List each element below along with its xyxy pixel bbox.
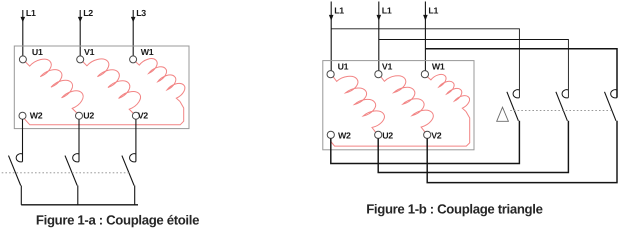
terminal V1 (right fig) (375, 71, 382, 78)
arrow L2 (left fig) (78, 17, 83, 22)
wire blade bottom to star bar pole 1 (left fig) (20, 186, 22, 205)
terminal V2 (right fig) (424, 131, 431, 138)
terminal U1 (right fig) (327, 71, 334, 78)
svg-text:Figure 1-b : Couplage triangle: Figure 1-b : Couplage triangle (366, 201, 542, 216)
switch blade pole 2 (left fig) (65, 156, 77, 186)
svg-text:V1: V1 (84, 47, 95, 57)
terminal U2 (left fig) (76, 112, 83, 119)
svg-text:L1: L1 (26, 8, 36, 18)
wire L1 feeder 1 (right fig) (330, 2, 332, 71)
terminal box (left fig, motor terminal board) (14, 46, 189, 129)
svg-text:U2: U2 (83, 110, 94, 120)
wire blade bottom to star bar pole 3 (left fig) (134, 186, 136, 205)
winding coil U1-U2 (left fig) (25, 59, 83, 112)
svg-text:U1: U1 (32, 47, 43, 57)
svg-text:V2: V2 (138, 110, 149, 120)
star point shorting bar (left fig) (21, 204, 138, 206)
wire L1 feeder (left fig) (22, 10, 24, 56)
svg-text:Figure 1-a : Couplage étoile: Figure 1-a : Couplage étoile (36, 212, 199, 227)
svg-text:V1: V1 (382, 62, 393, 72)
mechanical link dashed (left fig) (0, 172, 130, 174)
svg-text:W1: W1 (432, 62, 445, 72)
winding coil W1-W2 (right fig) (427, 74, 469, 111)
wire L3 feeder (left fig) (132, 10, 134, 56)
winding coil V1-V2 (left fig) (83, 59, 141, 114)
switch contact hook pole 1 (right fig) (513, 90, 519, 98)
wire W2 to switch 1 bottom (right fig) (331, 121, 520, 164)
switch blade pole 3 (left fig) (122, 156, 134, 186)
wire U2 down to switch pole 2 (left fig) (78, 119, 80, 161)
wire coil W1 return to W2 (red, right fig) (331, 112, 470, 147)
terminal box (right fig, motor terminal board) (323, 61, 474, 150)
switch blade pole 3 (right fig) (605, 92, 617, 121)
svg-text:L1: L1 (334, 5, 344, 15)
arrow L1 (left fig) (21, 17, 26, 22)
switch contact hook pole 3 (left fig) (130, 154, 136, 162)
terminal W2 (left fig) (19, 112, 26, 119)
svg-text:L3: L3 (136, 8, 146, 18)
svg-text:U2: U2 (382, 130, 393, 140)
switch contact hook pole 2 (left fig) (73, 154, 79, 162)
wire V2 to switch 3 bottom (right fig) (427, 121, 617, 183)
arrow L1 feeder 1 (right fig) (329, 15, 334, 21)
svg-text:L2: L2 (83, 8, 93, 18)
svg-text:W2: W2 (30, 110, 43, 120)
wire branch feeder 1 to switch 1 (right fig) (331, 29, 519, 98)
wire coil W1 return to W2 (red, left fig) (24, 102, 183, 125)
terminal U1 (left fig) (19, 56, 26, 63)
wire L2 feeder (left fig) (79, 10, 81, 56)
switch blade pole 1 (right fig) (507, 92, 519, 121)
terminal W1 (left fig) (130, 56, 137, 63)
switch contact hook pole 3 (right fig) (611, 90, 617, 98)
svg-text:V2: V2 (431, 130, 442, 140)
switch blade pole 1 (left fig) (9, 156, 21, 186)
winding coil U1-U2 (right fig) (333, 76, 384, 132)
terminal W1 (right fig) (421, 71, 428, 78)
arrow L3 (left fig) (131, 17, 136, 22)
svg-text:U1: U1 (338, 62, 349, 72)
delta symbol (right fig) (497, 107, 509, 121)
wire V2 down to switch pole 3 (left fig) (135, 119, 137, 161)
winding coil W1-W2 (left fig) (136, 59, 185, 102)
mechanical link dashed (right fig) (510, 110, 611, 112)
arrow L1 feeder 3 (right fig) (423, 15, 428, 21)
terminal V2 (left fig) (132, 112, 139, 119)
svg-text:W1: W1 (141, 47, 154, 57)
wire L1 feeder 3 (right fig) (424, 2, 426, 71)
terminal U2 (right fig) (375, 131, 382, 138)
svg-text:L1: L1 (428, 5, 438, 15)
terminal V1 (left fig) (77, 56, 84, 63)
arrow L1 feeder 2 (right fig) (377, 15, 382, 21)
svg-text:L1: L1 (382, 5, 392, 15)
wire U2 to switch 2 bottom (right fig) (378, 121, 568, 173)
wire W2 down to switch pole 1 (left fig) (22, 119, 24, 161)
wire branch feeder 2 to switch 2 (right fig) (379, 40, 569, 98)
winding coil V1-V2 (right fig) (381, 76, 434, 132)
wire L1 feeder 2 (right fig) (378, 2, 380, 71)
switch blade pole 2 (right fig) (556, 92, 568, 121)
terminal W2 (right fig) (327, 131, 334, 138)
switch contact hook pole 2 (right fig) (562, 90, 568, 98)
wire branch feeder 3 to switch 3 (right fig) (425, 49, 617, 98)
svg-text:W2: W2 (338, 130, 351, 140)
switch contact hook pole 1 (left fig) (16, 154, 22, 162)
wire blade bottom to star bar pole 2 (left fig) (77, 186, 79, 205)
